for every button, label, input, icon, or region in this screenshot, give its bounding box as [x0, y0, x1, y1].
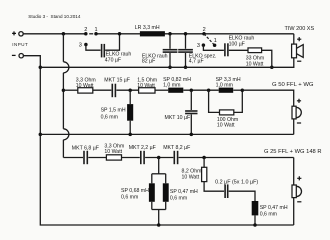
wire woofer feed down to speaker	[293, 34, 295, 44]
svg-text:TIW 200 XS: TIW 200 XS	[285, 26, 315, 32]
wire C2.2 to junction	[145, 157, 173, 159]
svg-text:SP 0,47 mH: SP 0,47 mH	[260, 205, 288, 211]
speaker G 25 FFL + WG 148 R	[264, 149, 321, 202]
junction R33 branch on woofer return	[270, 66, 274, 70]
junction C4.7 top	[184, 32, 188, 36]
node 2 of jumper J1	[84, 27, 88, 36]
speaker TIW 200 XS	[285, 26, 315, 61]
svg-text:1: 1	[95, 27, 98, 33]
junction on top rail at C470	[118, 32, 122, 36]
junction parallel inductors on bottom rail	[157, 223, 161, 227]
wire node3 to capacitor C470	[86, 45, 101, 51]
wire G25 minus to bottom rail	[293, 198, 295, 225]
wire tweeter feed rail start	[63, 157, 83, 159]
wire SP0.82 to junctions	[183, 89, 218, 91]
speaker G 50 FFL + WG	[272, 82, 314, 123]
capacitor C4.7 ELKO spez 4.7uF	[178, 35, 216, 67]
node 3 of jumper J1	[79, 43, 88, 49]
input - terminal	[12, 54, 24, 58]
wire node3' to capacitor C100	[203, 45, 224, 50]
svg-text:100 µF: 100 µF	[229, 41, 245, 47]
wire SP0.47 to bottom rail	[254, 215, 256, 225]
resistor R3.3 mid 3,3 Ohm 10 Watt	[76, 78, 96, 93]
wire C0.2 to SP0.47	[229, 191, 255, 201]
wire R8.2 to C0.2	[204, 182, 224, 192]
svg-text:3: 3	[197, 43, 200, 49]
junction C82 bottom	[168, 66, 172, 70]
wire vertical feed with hops	[63, 34, 69, 158]
node 1 of jumper J1	[94, 27, 98, 36]
inductor SP 0,68 mH 0,6 mm	[121, 183, 155, 202]
wire SP1.5 branch lower	[129, 121, 131, 135]
resistor R100 100 Ohm 10 Watt	[217, 110, 238, 129]
wire C15 to junction	[116, 89, 138, 91]
svg-text:2: 2	[203, 27, 206, 33]
inductor LR 3.3 mH	[135, 25, 165, 36]
wire woofer return rail	[40, 66, 271, 68]
junction parallel RL right	[241, 88, 245, 92]
switch S2 node 3	[197, 43, 205, 49]
capacitor MKT 6,8 uF	[72, 145, 99, 164]
resistor R33 33 Ohm 10 Watt	[246, 48, 264, 68]
svg-text:10 Watt: 10 Watt	[217, 123, 235, 129]
wire SP3.3 to junction right	[233, 89, 242, 91]
wire top rail from + to jumper dot 2	[23, 33, 86, 35]
junction SP1.5 branch	[128, 88, 132, 92]
junction MKT10 on midrange return	[190, 133, 194, 137]
junction parallel RL left	[207, 88, 211, 92]
svg-text:SP 0,47 mH: SP 0,47 mH	[170, 189, 198, 195]
capacitor C82 ELKO rauh 82uF	[142, 35, 178, 67]
wire G50 minus to midrange return	[293, 119, 295, 134]
wire C8.2 to tweeter	[179, 157, 294, 159]
inductor SP 0,47 mH 0,6 mm bottom	[252, 201, 288, 217]
wire speaker minus down and left	[272, 58, 294, 68]
svg-text:MKT 2,2 µF: MKT 2,2 µF	[129, 145, 156, 151]
junction SP0.47 on bottom rail	[253, 223, 257, 227]
resistor R3.3 tweeter 3,3 Ohm 10 Watt	[104, 144, 124, 161]
wire capacitor C470 to top rail	[105, 34, 119, 50]
wire C6.8 to R3.3t	[88, 157, 106, 159]
capacitor MKT 2,2 uF	[129, 145, 156, 164]
junction SP1.5 on midrange return	[128, 133, 132, 137]
svg-text:MKT 15 µF: MKT 15 µF	[104, 78, 130, 84]
wire parallel inductors branch	[152, 158, 166, 184]
junction midrange feed start	[62, 88, 66, 92]
capacitor C 470uF ELKO rauh	[102, 44, 132, 64]
wire - input to left bus	[23, 56, 293, 225]
wire tweeter feed down	[293, 158, 295, 186]
inductor SP 0,47 mH 0,6 mm (paired)	[163, 183, 198, 202]
svg-text:3: 3	[79, 43, 82, 49]
svg-text:1: 1	[214, 38, 217, 44]
svg-text:0,6 mm: 0,6 mm	[121, 195, 138, 201]
svg-text:0,6 mm: 0,6 mm	[101, 114, 118, 120]
resistor R1.5 1,5 Ohm 10 Watt	[137, 78, 157, 93]
svg-text:470 µF: 470 µF	[105, 57, 121, 63]
svg-text:0.2 µF (5x 1.0 µF): 0.2 µF (5x 1.0 µF)	[215, 179, 258, 185]
svg-text:4,7 µF: 4,7 µF	[189, 59, 204, 65]
junction MKT10 branch	[190, 88, 194, 92]
svg-text:G 50 FFL + WG: G 50 FFL + WG	[272, 82, 314, 88]
wire midrange return rail	[40, 133, 293, 135]
capacitor C100 ELKO rauh 100uF	[225, 35, 254, 56]
wire C100 to resistor R33	[229, 49, 248, 51]
wire midrange feed to speaker	[242, 90, 293, 106]
wire parallel loop for R100	[209, 90, 220, 112]
input + terminal	[12, 31, 23, 36]
junction C82 top	[168, 32, 172, 36]
wire R3.3t to C2.2	[122, 157, 140, 159]
switch S2 node 2	[202, 27, 206, 36]
capacitor 0.2 uF (5x 1.0 uF)	[215, 179, 258, 198]
svg-text:82 µF: 82 µF	[142, 59, 155, 65]
svg-text:Studio 3 - Stand 10.2014: Studio 3 - Stand 10.2014	[28, 14, 81, 19]
wire R100 loop right side	[234, 90, 243, 112]
junction C4.7 bottom	[184, 66, 188, 70]
junction left bus woofer return	[39, 66, 43, 70]
wire SP1.5 branch upper	[129, 90, 131, 104]
svg-text:10 Watt: 10 Watt	[182, 174, 200, 180]
junction top rail feed to lower sections	[62, 32, 66, 36]
svg-text:0,6 mm: 0,6 mm	[260, 211, 277, 217]
wire midrange feed rail start	[63, 89, 77, 91]
inductor SP 3,3 mH 1,0 mm	[216, 77, 241, 93]
svg-text:0,6 mm: 0,6 mm	[170, 196, 187, 202]
svg-text:SP 1,5 mH: SP 1,5 mH	[101, 108, 126, 114]
svg-text:SP 0,68 mH: SP 0,68 mH	[121, 188, 149, 194]
capacitor MKT 8,2 uF	[163, 145, 190, 164]
svg-text:MKT 8,2 µF: MKT 8,2 µF	[163, 145, 190, 151]
capacitor MKT 10 uF branch	[165, 90, 198, 134]
jumper J1 dashed link 2-1	[89, 33, 93, 35]
wire R3.3 to C15	[93, 89, 112, 91]
inductor SP 1,5 mH 0,6 mm	[101, 104, 134, 121]
wire parallel inductors rejoin	[152, 202, 166, 225]
svg-text:MKT 6,8 µF: MKT 6,8 µF	[72, 145, 99, 151]
junction R8.2 branch	[202, 156, 206, 160]
svg-text:INPUT: INPUT	[12, 42, 28, 47]
svg-text:LR 3,3 mH: LR 3,3 mH	[135, 25, 160, 31]
svg-text:2: 2	[84, 27, 87, 33]
inductor SP 0,82 mH 1,0 mm	[163, 77, 191, 93]
wire R1.5 to SP0.82	[155, 89, 168, 91]
wire R33 to lower woofer rail	[262, 50, 272, 67]
resistor R8.2 8,2 Ohm 10 Watt vertical	[182, 158, 207, 182]
svg-text:G 25 FFL + WG 148 R: G 25 FFL + WG 148 R	[264, 149, 321, 155]
switch S2 node 1	[213, 38, 217, 47]
capacitor MKT 15 uF	[104, 78, 130, 98]
junction parallel inductors top	[157, 156, 161, 160]
wire top rail from jumper dot 1 to woofer	[96, 33, 294, 35]
svg-text:MKT 10 µF: MKT 10 µF	[165, 115, 191, 121]
switch S2 dashed link to node 1	[204, 34, 215, 46]
junction left bus midrange return	[39, 133, 43, 137]
